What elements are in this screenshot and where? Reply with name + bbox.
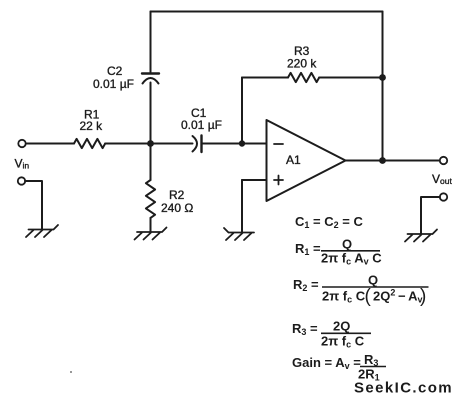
- svg-text:C2: C2: [107, 64, 123, 78]
- label equation R3: [292, 319, 371, 350]
- label Vin: [15, 157, 30, 171]
- label R3 value: [287, 44, 317, 71]
- svg-text:SeekIC.com: SeekIC.com: [354, 380, 453, 397]
- svg-text:2π fc Av C: 2π fc Av C: [321, 251, 382, 267]
- node input junction: [147, 140, 154, 147]
- label R1 value: [80, 108, 104, 134]
- svg-text:C1 = C2 = C: C1 = C2 = C: [295, 214, 363, 230]
- wire R2 to ground: [150, 218, 152, 232]
- svg-text:R1 =: R1 =: [295, 241, 321, 257]
- label equation R1: [295, 237, 382, 267]
- resistor R1: [74, 139, 105, 148]
- svg-text:A1: A1: [286, 153, 301, 167]
- resistor R2: [146, 180, 155, 218]
- svg-text:0.01 µF: 0.01 µF: [181, 118, 222, 132]
- wire C1 to op-amp: [203, 143, 267, 145]
- wire non-inverting to ground: [241, 180, 243, 233]
- label C1 value: [181, 106, 222, 132]
- label equation R2: [293, 273, 429, 308]
- label equation C1 = C2 = C: [292, 214, 429, 383]
- svg-text:2π fc C: 2π fc C: [322, 289, 366, 305]
- wire Vin ground branch: [25, 181, 42, 229]
- ground op-amp input: [224, 228, 254, 240]
- wire Vin to R1: [26, 143, 74, 145]
- wire top rail: [151, 11, 383, 13]
- wire R2 branch: [150, 144, 152, 181]
- svg-text:2Q2 − Av: 2Q2 − Av: [373, 288, 423, 305]
- capacitor C2: [142, 74, 159, 84]
- svg-text:2Q: 2Q: [333, 319, 350, 334]
- svg-text:(: (: [365, 286, 372, 307]
- resistor R3: [288, 73, 319, 82]
- terminal Vout: [440, 157, 447, 164]
- watermark SeekIC.com: [354, 380, 453, 397]
- ground output: [405, 230, 437, 242]
- svg-text:Vin: Vin: [15, 157, 30, 171]
- terminal Vin ground: [18, 177, 25, 184]
- node stray mark: [70, 371, 72, 373]
- svg-text:0.01 µF: 0.01 µF: [93, 77, 134, 91]
- svg-text:2π fc C: 2π fc C: [321, 334, 365, 350]
- wire feedback right: [319, 77, 382, 79]
- label R2 value: [161, 188, 193, 215]
- wire C2 branch upper: [150, 12, 152, 73]
- svg-text:220 k: 220 k: [287, 57, 317, 71]
- wire output: [346, 160, 440, 162]
- ground R2: [135, 228, 167, 240]
- label equation Gain: [292, 352, 386, 383]
- node output junction: [379, 157, 386, 164]
- op-amp A1: [267, 120, 346, 201]
- svg-text:22 k: 22 k: [80, 119, 104, 133]
- wire right rail: [382, 12, 384, 161]
- wire feedback left: [242, 77, 288, 79]
- node inverting input junction: [239, 140, 245, 146]
- svg-text:240 Ω: 240 Ω: [161, 201, 193, 215]
- wire R1 to C1: [105, 143, 192, 145]
- label Vout: [432, 172, 452, 186]
- svg-text:R2: R2: [169, 188, 185, 202]
- wire Vout ground branch: [421, 197, 440, 234]
- wire non-inverting input: [242, 179, 267, 181]
- wire C2 branch lower: [150, 83, 152, 144]
- capacitor C1: [193, 136, 202, 153]
- wire feedback vertical: [241, 78, 243, 144]
- label C2 value: [93, 64, 134, 91]
- ground input: [26, 225, 58, 237]
- svg-text:R2 =: R2 =: [293, 277, 319, 293]
- svg-text:): ): [420, 286, 426, 307]
- svg-text:Q: Q: [342, 237, 352, 252]
- terminal Vout ground: [440, 193, 447, 200]
- svg-text:R3 =: R3 =: [292, 321, 318, 337]
- node feedback junction: [379, 74, 386, 81]
- svg-text:Vout: Vout: [432, 172, 452, 186]
- terminal Vin: [18, 140, 25, 147]
- svg-text:Gain = Av =: Gain = Av =: [292, 355, 361, 371]
